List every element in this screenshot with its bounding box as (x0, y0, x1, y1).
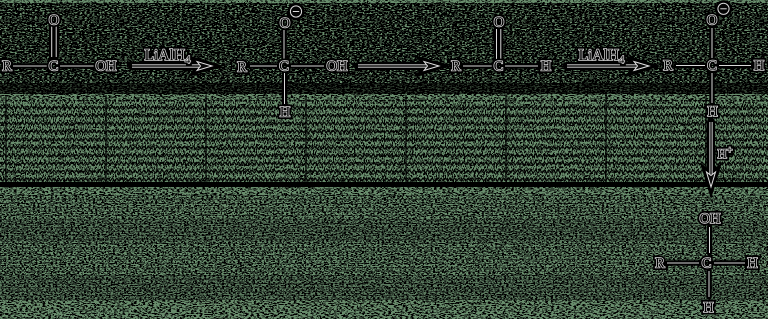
wire C-H bond down (intermediate) (282, 73, 288, 104)
wire C=O double bond (acid) (49, 26, 55, 57)
reaction arrow 4 down (707, 122, 715, 185)
wire C-OH bond up (alcohol) (707, 227, 713, 253)
svg-text:H: H (541, 59, 552, 75)
svg-text:OH: OH (700, 211, 721, 227)
svg-text:H: H (754, 58, 765, 74)
wire R-C bond (alcohol) (667, 260, 699, 266)
wire C-O bond up (intermediate) (281, 30, 287, 59)
wire C-H bond (aldehyde) (505, 63, 538, 69)
svg-text:LiAlH4: LiAlH4 (145, 47, 191, 66)
svg-text:H: H (280, 105, 291, 121)
dense dashed strip top of band B (0, 94, 768, 100)
svg-text:LiAlH4: LiAlH4 (579, 47, 625, 66)
svg-text:OH: OH (327, 59, 348, 75)
svg-text:O: O (280, 16, 290, 32)
svg-text:R: R (237, 60, 247, 76)
band B chevron texture (0, 100, 768, 182)
svg-text:R: R (451, 59, 461, 75)
band A noise (top) (0, 0, 768, 94)
svg-text:R: R (663, 58, 673, 74)
svg-text:H: H (707, 104, 718, 120)
svg-text:C: C (707, 58, 717, 74)
band B noise (middle) (0, 100, 768, 182)
wire C-H bond right (alcohol) (714, 260, 745, 266)
wire C-OH bond (intermediate) (291, 63, 324, 69)
svg-text:C: C (279, 59, 289, 75)
band B vertical seams (6, 95, 706, 182)
svg-text:R: R (2, 59, 12, 75)
wire R-C bond (intermediate) (250, 63, 277, 69)
band A row texture (0, 0, 768, 85)
separator dark strip 2 (0, 182, 768, 187)
wire C=O double bond (aldehyde) (494, 29, 500, 59)
wire C-H bond down (alcohol) (706, 271, 712, 297)
svg-text:R: R (655, 256, 665, 272)
svg-text:C: C (494, 59, 504, 75)
charge minus circle (alkoxide) (718, 3, 729, 14)
svg-text:H: H (747, 256, 758, 272)
wire C-H bond down (alkoxide) (709, 73, 715, 103)
band C darker strip 1 (0, 220, 768, 242)
band C noise (lower) (0, 195, 768, 300)
wire R-C bond (alkoxide) (676, 63, 705, 69)
svg-text:O: O (49, 13, 59, 29)
wire C-OH bond (acid) (60, 63, 94, 69)
band D noise (bottom strip) (0, 300, 768, 319)
reaction arrow 3 (567, 62, 647, 70)
dense dashed strip top of band C (0, 187, 768, 195)
reaction arrow 2 (358, 62, 437, 70)
wire R-C bond (acid) (13, 63, 47, 69)
svg-text:C: C (49, 59, 59, 75)
svg-text:O: O (707, 13, 717, 29)
wire R-C bond (aldehyde) (463, 63, 492, 69)
svg-text:O: O (494, 15, 504, 31)
top edge dense dash row (0, 0, 768, 3)
wire C-H bond right (alkoxide) (719, 63, 751, 69)
svg-text:C: C (702, 256, 712, 272)
svg-text:H: H (703, 300, 714, 316)
band C darker strip 2 (0, 275, 768, 300)
band C row texture (0, 195, 768, 300)
charge minus circle (intermediate) (290, 6, 301, 17)
reaction arrow 1 (132, 62, 210, 70)
separator dark strip 1 (0, 83, 768, 95)
wire C-O bond up (alkoxide) (709, 28, 715, 58)
svg-text:OH: OH (96, 59, 117, 75)
